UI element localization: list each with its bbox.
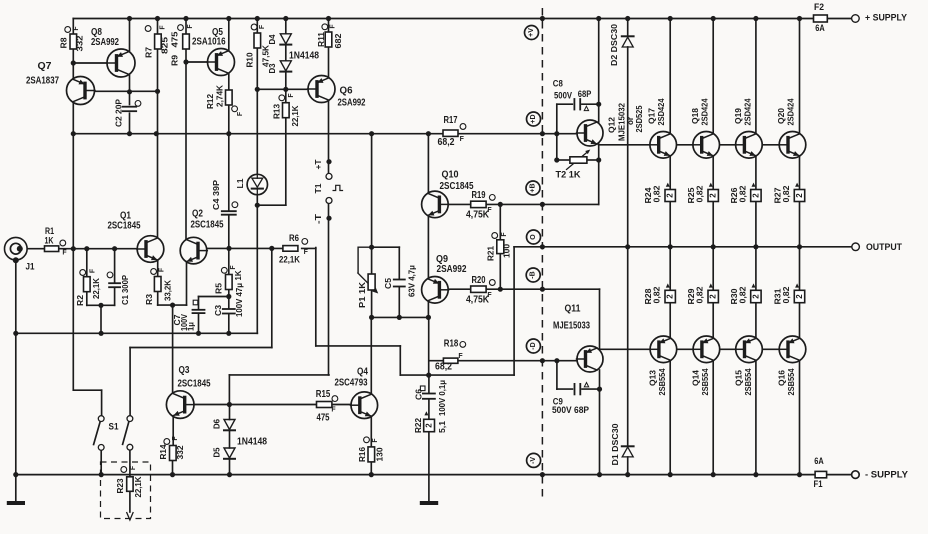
svg-text:-B: -B [530, 271, 537, 278]
svg-text:Q19: Q19 [734, 107, 743, 124]
svg-text:F: F [330, 24, 337, 29]
svg-text:2SC4793: 2SC4793 [335, 377, 368, 389]
svg-text:R20: R20 [472, 275, 486, 286]
svg-text:or: or [626, 117, 635, 125]
svg-text:Q16: Q16 [778, 369, 787, 386]
svg-text:R2: R2 [76, 294, 85, 306]
svg-text:2: 2 [666, 294, 675, 299]
svg-text:-V: -V [530, 457, 537, 464]
svg-text:+ SUPPLY: + SUPPLY [865, 13, 907, 23]
svg-text:0,82: 0,82 [738, 185, 747, 203]
svg-text:2SA1016: 2SA1016 [192, 35, 226, 47]
svg-text:Q15: Q15 [735, 369, 744, 386]
svg-text:+V: +V [528, 28, 535, 37]
svg-text:F: F [160, 25, 167, 30]
svg-text:F: F [62, 250, 67, 257]
svg-text:F: F [230, 265, 237, 270]
svg-text:22,1K: 22,1K [92, 278, 101, 299]
svg-text:Q7: Q7 [38, 60, 52, 72]
svg-text:1μ: 1μ [187, 322, 196, 331]
svg-text:682: 682 [334, 33, 343, 49]
svg-text:D1 DSC30: D1 DSC30 [611, 423, 620, 466]
svg-text:D3: D3 [268, 63, 277, 74]
svg-text:+D: +D [530, 114, 537, 123]
svg-text:2SD424: 2SD424 [786, 98, 795, 126]
svg-text:33,2K: 33,2K [164, 280, 173, 301]
svg-text:R13: R13 [272, 103, 281, 119]
svg-text:68P: 68P [578, 89, 592, 100]
svg-text:2SA992: 2SA992 [91, 36, 119, 48]
svg-text:R16: R16 [358, 446, 367, 462]
svg-text:C1 300P: C1 300P [121, 274, 130, 305]
svg-text:R1: R1 [45, 226, 54, 236]
svg-text:F: F [372, 438, 379, 443]
svg-text:R6: R6 [289, 233, 299, 244]
svg-text:J1: J1 [26, 262, 36, 273]
svg-text:2: 2 [795, 294, 804, 299]
svg-text:0,82: 0,82 [738, 286, 747, 304]
svg-text:2SC1845: 2SC1845 [178, 378, 211, 390]
svg-text:F: F [172, 436, 179, 441]
svg-text:-T: -T [314, 214, 323, 224]
svg-text:22,1K: 22,1K [134, 476, 143, 497]
svg-text:F: F [130, 465, 137, 470]
svg-text:0,82: 0,82 [653, 286, 662, 304]
svg-text:F2: F2 [814, 2, 824, 13]
svg-text:0,82: 0,82 [782, 185, 791, 203]
svg-text:0,82: 0,82 [653, 185, 662, 203]
svg-text:130: 130 [375, 447, 384, 462]
svg-text:332: 332 [176, 445, 185, 460]
svg-text:T1: T1 [314, 183, 323, 194]
svg-text:2,74K: 2,74K [216, 85, 225, 107]
svg-text:D2 DSC30: D2 DSC30 [610, 23, 619, 66]
svg-text:1N4148: 1N4148 [289, 50, 319, 62]
svg-text:L1: L1 [236, 178, 245, 189]
svg-text:100V 0,1μ: 100V 0,1μ [438, 380, 447, 416]
svg-text:2: 2 [751, 294, 760, 299]
svg-text:22,1K: 22,1K [279, 255, 300, 266]
svg-text:Q20: Q20 [777, 107, 786, 124]
svg-text:2SA992: 2SA992 [437, 263, 467, 275]
svg-text:2SD424: 2SD424 [700, 98, 709, 126]
svg-text:Q13: Q13 [649, 369, 658, 386]
svg-text:2SB554: 2SB554 [701, 368, 710, 396]
svg-text:T2 1K: T2 1K [556, 170, 581, 181]
svg-text:D4: D4 [268, 34, 277, 45]
svg-text:P1 1K: P1 1K [358, 282, 367, 308]
svg-text:2SC1845: 2SC1845 [440, 180, 474, 192]
svg-text:0,82: 0,82 [696, 185, 705, 203]
svg-text:R7: R7 [145, 46, 154, 58]
svg-text:F: F [460, 136, 465, 143]
svg-text:2SC1845: 2SC1845 [108, 220, 141, 232]
svg-text:2: 2 [751, 193, 760, 198]
svg-text:Q12: Q12 [608, 116, 617, 133]
svg-text:2: 2 [795, 193, 804, 198]
svg-text:+B: +B [530, 183, 537, 192]
svg-text:68,2: 68,2 [435, 361, 452, 372]
svg-text:F1: F1 [814, 479, 824, 490]
svg-text:2SD525: 2SD525 [635, 105, 644, 133]
svg-text:O: O [530, 234, 537, 240]
svg-text:C4 39P: C4 39P [212, 179, 221, 210]
svg-text:1K: 1K [45, 236, 54, 246]
svg-text:F: F [159, 267, 166, 272]
svg-text:Q3: Q3 [179, 364, 190, 376]
svg-text:R17: R17 [444, 115, 458, 126]
svg-text:2: 2 [425, 423, 434, 428]
svg-text:2SB554: 2SB554 [658, 368, 667, 396]
svg-text:475: 475 [317, 412, 330, 423]
svg-text:5,1: 5,1 [438, 420, 447, 433]
svg-text:S1: S1 [109, 422, 120, 433]
svg-text:2SD424: 2SD424 [657, 98, 666, 126]
svg-text:MJE15033: MJE15033 [553, 320, 590, 332]
svg-text:+T: +T [314, 159, 323, 169]
svg-text:F: F [90, 268, 97, 273]
svg-text:R9: R9 [170, 54, 179, 66]
svg-text:D5: D5 [212, 447, 221, 458]
svg-text:R12: R12 [206, 93, 215, 109]
svg-text:Q17: Q17 [648, 107, 657, 124]
svg-text:R22: R22 [414, 417, 423, 433]
svg-text:F: F [331, 407, 336, 414]
svg-text:R5: R5 [215, 282, 224, 294]
svg-text:R3: R3 [145, 293, 154, 305]
svg-text:Q14: Q14 [692, 369, 701, 386]
svg-text:Q10: Q10 [442, 169, 459, 181]
svg-text:-D: -D [530, 342, 537, 349]
svg-text:100: 100 [503, 243, 512, 258]
svg-text:332: 332 [76, 35, 85, 52]
svg-text:Q11: Q11 [565, 303, 581, 315]
svg-text:4,75K: 4,75K [466, 295, 490, 306]
svg-text:C5: C5 [384, 277, 393, 289]
svg-text:F: F [73, 26, 80, 31]
svg-text:4,75K: 4,75K [466, 210, 490, 221]
svg-text:R11: R11 [317, 31, 326, 47]
svg-text:2SB554: 2SB554 [744, 368, 753, 396]
svg-text:2SA992: 2SA992 [338, 97, 366, 109]
svg-text:Q18: Q18 [691, 107, 700, 124]
svg-text:6A: 6A [815, 23, 825, 34]
svg-text:825: 825 [161, 36, 170, 54]
svg-text:Q6: Q6 [340, 85, 353, 97]
svg-text:2SA1837: 2SA1837 [26, 75, 59, 87]
svg-text:R21: R21 [487, 245, 496, 261]
svg-text:500V 68P: 500V 68P [552, 405, 590, 416]
svg-text:D6: D6 [212, 418, 221, 429]
svg-text:F: F [304, 249, 309, 256]
svg-text:2: 2 [666, 193, 675, 198]
svg-text:2SC1845: 2SC1845 [191, 219, 224, 231]
svg-text:22,1K: 22,1K [291, 105, 300, 126]
svg-text:R23: R23 [116, 478, 125, 494]
svg-text:500V: 500V [554, 90, 573, 101]
svg-text:0,82: 0,82 [696, 286, 705, 304]
svg-text:63V 4,7μ: 63V 4,7μ [408, 265, 417, 297]
svg-text:100V 47μ: 100V 47μ [235, 283, 244, 317]
svg-text:- SUPPLY: - SUPPLY [865, 470, 908, 480]
svg-text:0,82: 0,82 [782, 286, 791, 304]
svg-text:F: F [187, 24, 194, 29]
svg-text:R14: R14 [159, 444, 168, 460]
svg-text:68,2: 68,2 [438, 137, 455, 148]
svg-text:R15: R15 [316, 389, 331, 400]
svg-text:2SB554: 2SB554 [787, 368, 796, 396]
svg-text:2SD424: 2SD424 [743, 98, 752, 126]
svg-text:475: 475 [170, 31, 179, 48]
svg-text:OUTPUT: OUTPUT [866, 242, 902, 252]
svg-text:R19: R19 [472, 190, 486, 201]
svg-text:C6: C6 [415, 388, 424, 400]
svg-text:1K: 1K [234, 270, 243, 280]
svg-text:F: F [237, 111, 244, 116]
svg-text:F: F [288, 93, 295, 98]
svg-text:R10: R10 [245, 52, 254, 68]
svg-text:2: 2 [709, 294, 718, 299]
svg-text:C3: C3 [214, 304, 223, 316]
svg-text:C2 20P: C2 20P [115, 98, 124, 127]
svg-text:F: F [259, 24, 266, 29]
svg-text:2: 2 [709, 193, 718, 198]
svg-text:F: F [501, 232, 508, 237]
svg-text:C8: C8 [553, 79, 563, 90]
svg-text:1N4148: 1N4148 [237, 436, 267, 448]
svg-text:6A: 6A [814, 456, 824, 467]
svg-text:F: F [458, 353, 463, 360]
svg-text:R8: R8 [60, 37, 69, 49]
svg-text:R18: R18 [444, 339, 459, 350]
